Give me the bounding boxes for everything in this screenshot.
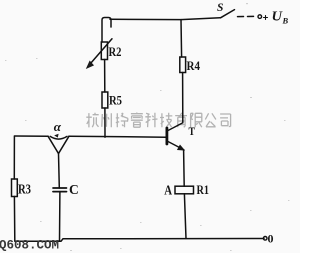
svg-text:R5: R5 xyxy=(109,93,122,108)
svg-text:R2: R2 xyxy=(109,44,122,59)
svg-text:α: α xyxy=(54,119,62,134)
svg-text:C: C xyxy=(69,182,79,197)
svg-text:R4: R4 xyxy=(187,58,201,73)
svg-text:Q608.COM: Q608.COM xyxy=(0,239,59,253)
svg-text:0: 0 xyxy=(268,232,274,246)
svg-text:B: B xyxy=(282,16,289,26)
svg-text:U: U xyxy=(272,10,283,25)
svg-text:R3: R3 xyxy=(18,182,31,197)
svg-text:R1: R1 xyxy=(197,182,210,197)
svg-text:S: S xyxy=(217,2,223,14)
svg-text:T: T xyxy=(189,124,196,138)
svg-text:A: A xyxy=(164,183,172,198)
